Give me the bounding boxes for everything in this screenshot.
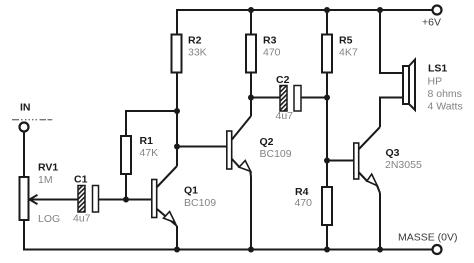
svg-text:HP: HP bbox=[428, 76, 443, 88]
svg-text:47K: 47K bbox=[140, 147, 159, 159]
svg-text:470: 470 bbox=[295, 197, 313, 209]
svg-text:LOG: LOG bbox=[38, 213, 60, 225]
svg-text:R5: R5 bbox=[339, 35, 353, 47]
svg-text:+6V: +6V bbox=[422, 17, 441, 29]
svg-text:470: 470 bbox=[263, 47, 281, 59]
svg-text:Q2: Q2 bbox=[260, 136, 274, 148]
svg-text:4 Watts: 4 Watts bbox=[428, 101, 463, 113]
svg-text:C2: C2 bbox=[276, 74, 290, 86]
svg-text:4K7: 4K7 bbox=[339, 47, 358, 59]
svg-text:4u7: 4u7 bbox=[276, 110, 294, 122]
svg-text:BC109: BC109 bbox=[184, 197, 216, 209]
svg-text:4u7: 4u7 bbox=[73, 213, 91, 225]
svg-text:R2: R2 bbox=[188, 35, 202, 47]
svg-text:33K: 33K bbox=[188, 47, 207, 59]
svg-text:RV1: RV1 bbox=[38, 162, 58, 174]
svg-text:Q3: Q3 bbox=[386, 147, 400, 159]
svg-text:1M: 1M bbox=[38, 174, 53, 186]
svg-text:R3: R3 bbox=[263, 35, 277, 47]
svg-text:R1: R1 bbox=[140, 135, 154, 147]
svg-text:LS1: LS1 bbox=[428, 63, 447, 75]
svg-text:MASSE (0V): MASSE (0V) bbox=[398, 232, 458, 244]
svg-text:8 ohms: 8 ohms bbox=[428, 88, 462, 100]
svg-text:IN: IN bbox=[20, 102, 31, 114]
svg-text:BC109: BC109 bbox=[260, 148, 292, 160]
svg-text:Q1: Q1 bbox=[184, 185, 198, 197]
svg-text:2N3055: 2N3055 bbox=[385, 159, 422, 171]
svg-text:C1: C1 bbox=[74, 174, 88, 186]
